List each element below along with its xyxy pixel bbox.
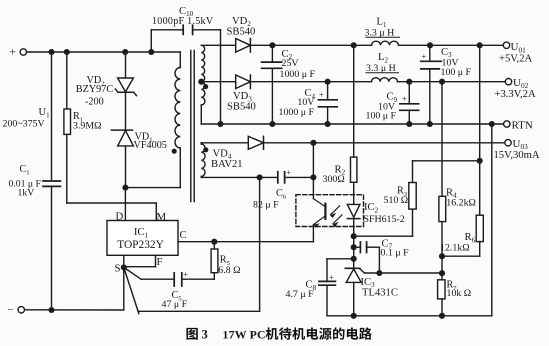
svg-text:100 μ F: 100 μ F bbox=[366, 111, 397, 122]
resistor R4 bbox=[439, 196, 446, 221]
node junction ground riser RTN bbox=[489, 121, 495, 127]
node junction R2 top bbox=[351, 42, 357, 48]
node junction R1 top bbox=[64, 49, 70, 55]
node junction return riser bias bbox=[257, 174, 263, 180]
node junction C2 bottom bbox=[269, 121, 275, 127]
svg-text:0.1 μ F: 0.1 μ F bbox=[381, 248, 410, 259]
wire 5V rail bbox=[201, 44, 371, 46]
svg-text:510 Ω: 510 Ω bbox=[384, 195, 409, 206]
node U01 terminal bbox=[503, 42, 509, 48]
svg-text:1000pF 1.5kV: 1000pF 1.5kV bbox=[152, 16, 214, 27]
wire C8 tee left bbox=[327, 258, 354, 260]
node junction C4 bottom bbox=[325, 121, 331, 127]
svg-text:F: F bbox=[157, 256, 163, 268]
wire TL431 ref bbox=[360, 269, 365, 273]
svg-text:+: + bbox=[183, 269, 188, 279]
wire U03 line bbox=[201, 142, 505, 144]
wire S pin stub bbox=[123, 255, 125, 267]
wire C1 vertical bbox=[51, 52, 53, 181]
resistor R7 bbox=[438, 280, 445, 299]
svg-text:16.2kΩ: 16.2kΩ bbox=[446, 198, 476, 209]
resistor R2 bbox=[351, 157, 357, 182]
wire bottom rail left bbox=[25, 309, 124, 311]
transformer primary winding bbox=[175, 68, 180, 149]
wire R1 top bbox=[66, 52, 68, 109]
inductor L2 bbox=[372, 78, 398, 82]
wire LED cathode down to TL431 bbox=[353, 236, 355, 268]
svg-text:+: + bbox=[319, 90, 324, 100]
node junction C1 top bbox=[48, 49, 54, 55]
wire return riser to bias winding bbox=[259, 177, 261, 311]
node junction C9 bottom bbox=[406, 121, 412, 127]
node junction C3 bottom bbox=[427, 121, 433, 127]
diode VD1 VF4005 bbox=[111, 129, 132, 131]
inductor L1 bbox=[372, 41, 399, 45]
wire zener branch upper bbox=[125, 52, 127, 78]
wire LED cathode to R3 bbox=[354, 235, 413, 237]
node secondary phase dot bbox=[203, 84, 208, 89]
wire R1 bottom to M pin bbox=[66, 134, 68, 203]
node junction R7 ground bbox=[439, 313, 445, 319]
node junction C10 branch bbox=[148, 49, 154, 55]
capacitor C7 bbox=[354, 246, 361, 248]
transformer bias winding bbox=[201, 144, 205, 176]
wire D node down to D pin bbox=[124, 188, 126, 221]
svg-text:100 μ F: 100 μ F bbox=[441, 67, 472, 78]
node bias phase dot bbox=[203, 147, 208, 152]
wire 3.3V rail bbox=[201, 81, 371, 83]
svg-text:3.9MΩ: 3.9MΩ bbox=[73, 120, 101, 131]
capacitor C2 bbox=[271, 45, 273, 62]
wire R4 from 3.3V rail bbox=[441, 82, 443, 197]
svg-text:+5V,2A: +5V,2A bbox=[499, 53, 533, 64]
resistor R1 bbox=[64, 109, 71, 134]
svg-text:15V,30mA: 15V,30mA bbox=[494, 150, 540, 161]
svg-text:+3.3V,2A: +3.3V,2A bbox=[495, 89, 536, 100]
transformer core bbox=[190, 51, 192, 202]
wire between zener and VD1 bbox=[125, 92, 127, 130]
caption figure title bbox=[186, 328, 197, 340]
node junction C7 tee bbox=[351, 244, 357, 250]
wire TL431 ground rail bbox=[327, 315, 492, 317]
svg-text:SFH615-2: SFH615-2 bbox=[364, 214, 405, 225]
resistor R5 bbox=[213, 242, 215, 249]
node junction C7 ref line bbox=[376, 270, 382, 276]
svg-text:TOP232Y: TOP232Y bbox=[117, 239, 164, 251]
node D junction bbox=[122, 185, 128, 191]
svg-text:BAV21: BAV21 bbox=[211, 159, 243, 170]
svg-text:1kV: 1kV bbox=[18, 187, 35, 198]
capacitor C6 bbox=[277, 172, 279, 183]
svg-text:+: + bbox=[286, 167, 291, 177]
diode IC2 LED bbox=[347, 204, 360, 217]
svg-text:4.7 μ F: 4.7 μ F bbox=[286, 289, 315, 300]
svg-text:VF4005: VF4005 bbox=[134, 140, 167, 151]
wire RTN rail bbox=[201, 123, 503, 125]
node junction opto collector riser bbox=[310, 140, 316, 146]
wire C5 right to R5 bottom bbox=[182, 278, 215, 280]
svg-text:25V: 25V bbox=[282, 58, 300, 69]
transformer secondary winding bbox=[201, 45, 204, 81]
svg-text:+: + bbox=[329, 272, 334, 282]
node junction feedback riser top bbox=[477, 42, 483, 48]
svg-text:47 μ F: 47 μ F bbox=[162, 299, 188, 310]
node primary phase dot bbox=[172, 149, 177, 154]
svg-text:SB540: SB540 bbox=[227, 27, 256, 38]
svg-text:1000 μ F: 1000 μ F bbox=[280, 69, 316, 80]
node - input terminal bbox=[18, 307, 24, 313]
wire C6 right bbox=[285, 176, 314, 178]
node R5 top junction bbox=[211, 239, 217, 245]
node junction R4 R6 bbox=[439, 253, 445, 259]
svg-text:200~375V: 200~375V bbox=[3, 119, 46, 130]
svg-text:+: + bbox=[402, 93, 407, 103]
op-amp IC1 TOP232Y box bbox=[107, 221, 178, 256]
resistor R3 bbox=[409, 183, 416, 210]
wire C pin bbox=[178, 241, 313, 243]
svg-text:300Ω: 300Ω bbox=[323, 174, 345, 185]
wire C10 right down to RTN bbox=[193, 29, 221, 31]
wire bottom rail right segment bbox=[138, 310, 260, 312]
wire opto collector riser bbox=[312, 143, 314, 199]
svg-text:17W PC: 17W PC bbox=[223, 328, 266, 342]
wire R3 top bbox=[412, 161, 414, 183]
capacitor C9 bbox=[408, 82, 410, 104]
svg-text:12.1kΩ: 12.1kΩ bbox=[440, 243, 470, 254]
wire R6 bottom bbox=[479, 242, 481, 257]
wire 5V riser to R6 bbox=[479, 45, 481, 215]
svg-text:C: C bbox=[180, 229, 187, 241]
node junction C2 top bbox=[269, 42, 275, 48]
capacitor C10 bbox=[182, 25, 184, 34]
diode VD2 SB540 bbox=[236, 39, 251, 53]
node junction C4 top bbox=[325, 79, 331, 85]
capacitor C8 bbox=[319, 280, 336, 282]
node junction RTN transformer bbox=[217, 121, 223, 127]
capacitor C3 bbox=[429, 45, 431, 61]
wire D node to primary bottom bbox=[125, 187, 180, 189]
diode VD3 SB540 bbox=[236, 75, 251, 89]
wire VD1 anode down to D node bbox=[125, 146, 127, 188]
wire R2 bottom to LED bbox=[353, 182, 355, 204]
svg-text:TL431C: TL431C bbox=[362, 288, 398, 299]
diode VD2 zener BZY97C-200 bbox=[118, 78, 134, 92]
svg-text:3.3 μ H: 3.3 μ H bbox=[365, 27, 395, 38]
wire R7 bottom bbox=[441, 299, 443, 316]
wire ground riser to RTN bbox=[491, 124, 493, 316]
node junction C8 tee bbox=[351, 256, 357, 262]
svg-text:BZY97C: BZY97C bbox=[76, 84, 114, 95]
node junction C3 top bbox=[427, 42, 433, 48]
wire input + rail bbox=[27, 51, 181, 53]
svg-text:M: M bbox=[157, 211, 167, 223]
svg-text:+: + bbox=[10, 47, 17, 59]
node junction R4 top bbox=[439, 79, 445, 85]
node U02 terminal bbox=[505, 79, 511, 85]
svg-text:SB540: SB540 bbox=[227, 101, 256, 112]
wire S down to bottom rail bbox=[123, 267, 125, 310]
wire S diagonal to rail bbox=[124, 267, 139, 313]
op-amp IC2 SFH615-2 optocoupler box bbox=[296, 195, 364, 227]
svg-text:S: S bbox=[115, 262, 121, 274]
node junction divider REF bbox=[439, 270, 445, 276]
svg-text:10k Ω: 10k Ω bbox=[447, 288, 472, 299]
transistor IC2 phototransistor bbox=[324, 204, 326, 219]
wire S diagonal to C5 bbox=[124, 267, 141, 279]
svg-text:1000 μ F: 1000 μ F bbox=[279, 107, 315, 118]
wire C10 left bbox=[150, 30, 152, 52]
wire bias winding bottom bbox=[201, 176, 277, 178]
op-amp IC3 TL431C bbox=[345, 267, 360, 269]
node junction C1 bottom bbox=[48, 307, 54, 313]
wire R2 from 5V rail bbox=[353, 45, 355, 157]
capacitor C4 bbox=[327, 82, 329, 100]
svg-text:+: + bbox=[422, 51, 427, 61]
svg-text:3: 3 bbox=[202, 328, 208, 342]
svg-text:82 μ F: 82 μ F bbox=[253, 199, 279, 210]
svg-text:RTN: RTN bbox=[512, 119, 533, 131]
node junction C9 top bbox=[406, 79, 412, 85]
capacitor C5 bbox=[173, 273, 175, 286]
node junction R3 riser bbox=[477, 158, 483, 164]
node junction TL431 anode ground bbox=[351, 313, 357, 319]
wire F pin to S bbox=[155, 255, 157, 266]
node junction VD2 zener branch top bbox=[122, 49, 128, 55]
svg-text:-200: -200 bbox=[85, 96, 104, 107]
capacitor C1 bbox=[43, 180, 61, 182]
svg-text:D: D bbox=[116, 211, 124, 223]
node RTN terminal bbox=[504, 121, 510, 127]
node secondary tap junction bbox=[198, 79, 204, 85]
resistor R6 bbox=[476, 215, 483, 241]
node S junction bbox=[121, 264, 127, 270]
diode VD4 BAV21 bbox=[248, 136, 263, 149]
node U03 terminal bbox=[505, 140, 511, 146]
node + input terminal bbox=[20, 49, 26, 55]
node LED cathode junction bbox=[351, 233, 357, 239]
svg-text:6.8 Ω: 6.8 Ω bbox=[218, 265, 240, 276]
wire IC2 light arrows bbox=[331, 206, 340, 215]
wire R4 bottom to divider bbox=[441, 222, 443, 280]
node junction C6 opto collector bbox=[310, 174, 316, 180]
svg-text:−: − bbox=[8, 305, 14, 316]
